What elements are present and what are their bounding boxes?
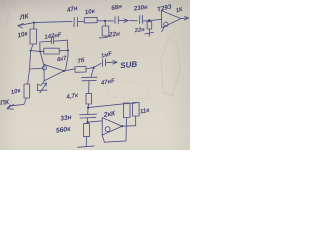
svg-text:22н: 22н	[133, 27, 145, 35]
svg-text:47нF: 47нF	[100, 78, 116, 87]
svg-text:10к: 10к	[10, 88, 22, 96]
svg-text:230н: 230н	[132, 4, 148, 13]
svg-text:SUB: SUB	[120, 60, 138, 71]
svg-text:ПК: ПК	[0, 99, 10, 107]
svg-text:4,7к: 4,7к	[65, 92, 80, 101]
svg-text:11к: 11к	[139, 107, 151, 116]
svg-text:33н: 33н	[60, 114, 72, 123]
svg-text:1мF: 1мF	[101, 51, 114, 60]
svg-text:68н: 68н	[111, 3, 123, 12]
svg-text:4к7: 4к7	[56, 56, 68, 64]
svg-text:10к: 10к	[17, 30, 29, 39]
svg-text:47н: 47н	[65, 5, 78, 15]
svg-text:2кК: 2кК	[102, 110, 116, 119]
svg-text:ЛК: ЛК	[18, 13, 30, 22]
svg-text:10к: 10к	[84, 7, 96, 16]
svg-text:22н: 22н	[108, 31, 121, 39]
svg-text:7б: 7б	[77, 57, 86, 65]
svg-text:1К: 1К	[175, 7, 184, 15]
svg-text:560к: 560к	[56, 126, 72, 135]
